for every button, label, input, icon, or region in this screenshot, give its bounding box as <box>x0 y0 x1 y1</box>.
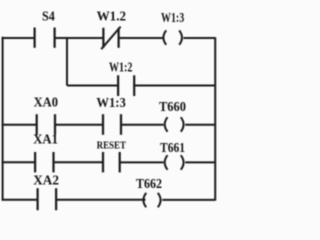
wire rung2 branch to W1:2 contact <box>67 85 118 87</box>
wire rung5 left rail to XA2 <box>2 199 38 201</box>
svg-text:W1:2: W1:2 <box>109 61 132 76</box>
wire rung5 XA2 to coil T662 <box>56 199 145 201</box>
coil T662 <box>143 193 160 207</box>
wire rung2 contact to right rail <box>134 85 215 87</box>
svg-text:W1:3: W1:3 <box>96 96 125 111</box>
svg-text:W1:3: W1:3 <box>161 11 184 26</box>
contact W1.2 normally-closed <box>101 27 120 50</box>
svg-text:T662: T662 <box>136 177 162 192</box>
contact XA0 <box>37 114 55 135</box>
wire rung4 contact to coil T661 <box>120 161 164 163</box>
wire rung3 coil to right rail <box>185 124 215 126</box>
contact W1:2 <box>118 75 134 96</box>
wire rung1 coil to right rail <box>184 37 216 39</box>
wire rung5 coil to right rail <box>162 199 215 201</box>
contact S4 <box>35 28 55 48</box>
svg-text:S4: S4 <box>42 10 55 25</box>
coil T661 <box>165 155 184 170</box>
svg-text:T660: T660 <box>159 100 186 115</box>
wire rung4 XA1 to RESET contact <box>54 161 104 163</box>
wire rung1 left rail to S4 <box>2 37 35 39</box>
svg-text:XA1: XA1 <box>33 133 58 148</box>
contact RESET <box>103 152 120 172</box>
wire rung3 XA0 to W1:3 contact <box>55 124 103 126</box>
wire rung3 contact to coil T660 <box>121 124 164 126</box>
left power rail <box>2 37 4 201</box>
wire rung1 NC contact to coil W1:3 <box>119 37 163 39</box>
contact XA2 <box>38 188 57 210</box>
svg-text:XA2: XA2 <box>33 173 59 188</box>
contact W1:3 <box>103 114 121 135</box>
svg-text:XA0: XA0 <box>34 96 58 111</box>
wire rung1 S4 to W1.2 NC contact <box>55 37 104 39</box>
coil T660 <box>165 117 184 132</box>
right power rail <box>214 37 216 200</box>
svg-text:W1.2: W1.2 <box>97 9 126 24</box>
contact XA1 <box>35 152 53 172</box>
svg-text:T661: T661 <box>160 141 185 156</box>
wire rung3 left rail to XA0 <box>2 124 37 126</box>
svg-text:RESET: RESET <box>97 139 127 151</box>
wire branch vertical node <box>66 38 68 86</box>
wire rung4 left rail to XA1 <box>2 161 36 163</box>
coil W1:3 <box>163 30 182 44</box>
wire rung4 coil to right rail <box>185 161 215 163</box>
